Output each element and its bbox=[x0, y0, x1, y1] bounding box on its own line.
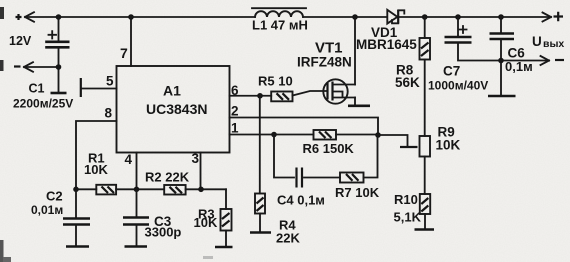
svg-text:3: 3 bbox=[192, 151, 200, 166]
svg-text:U: U bbox=[532, 34, 542, 49]
svg-text:R5 10: R5 10 bbox=[258, 74, 293, 89]
svg-text:MBR1645: MBR1645 bbox=[356, 37, 417, 52]
svg-text:C1: C1 bbox=[29, 82, 45, 96]
svg-text:22K: 22K bbox=[276, 231, 300, 246]
svg-text:3300p: 3300p bbox=[145, 225, 182, 240]
svg-text:0,01м: 0,01м bbox=[31, 203, 63, 217]
svg-text:10K: 10K bbox=[84, 162, 108, 177]
svg-text:2: 2 bbox=[231, 104, 239, 119]
svg-text:A1: A1 bbox=[163, 83, 181, 99]
svg-text:12V: 12V bbox=[9, 34, 32, 48]
svg-text:1000м/40V: 1000м/40V bbox=[428, 79, 488, 93]
svg-text:C7: C7 bbox=[443, 64, 460, 79]
svg-text:8: 8 bbox=[105, 106, 113, 121]
svg-text:56K: 56K bbox=[395, 75, 420, 90]
svg-text:L1 47 мН: L1 47 мН bbox=[252, 18, 308, 33]
svg-text:1: 1 bbox=[231, 121, 239, 136]
svg-text:10K: 10K bbox=[194, 215, 218, 230]
svg-text:R6 150K: R6 150K bbox=[303, 141, 355, 156]
svg-text:6: 6 bbox=[231, 83, 239, 98]
svg-text:R7 10K: R7 10K bbox=[335, 185, 380, 200]
svg-text:C4 0,1м: C4 0,1м bbox=[277, 193, 325, 208]
svg-text:вых: вых bbox=[543, 38, 564, 50]
svg-text:5: 5 bbox=[106, 74, 114, 89]
svg-text:C2: C2 bbox=[46, 189, 63, 204]
svg-text:IRFZ48N: IRFZ48N bbox=[297, 55, 352, 70]
svg-text:7: 7 bbox=[120, 45, 128, 61]
svg-text:UC3843N: UC3843N bbox=[146, 101, 207, 117]
svg-text:2200м/25V: 2200м/25V bbox=[13, 97, 73, 111]
svg-text:R10: R10 bbox=[394, 192, 418, 207]
svg-text:5,1K: 5,1K bbox=[394, 210, 422, 225]
svg-text:4: 4 bbox=[125, 152, 133, 167]
svg-text:10K: 10K bbox=[436, 138, 461, 153]
svg-text:0,1м: 0,1м bbox=[505, 59, 533, 74]
svg-text:R2 22K: R2 22K bbox=[145, 170, 190, 185]
